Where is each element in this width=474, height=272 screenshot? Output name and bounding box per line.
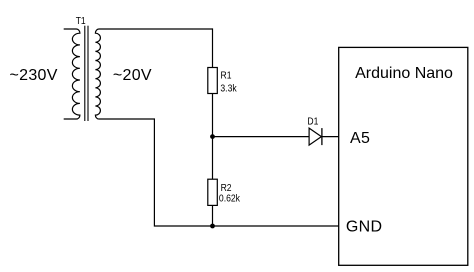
diode D1 triangle [309, 128, 321, 145]
resistor R1 [208, 68, 218, 94]
svg-text:T1: T1 [76, 15, 86, 27]
svg-text:Arduino Nano: Arduino Nano [355, 65, 453, 82]
secondary winding (right coil) + top lead wire to R1 [95, 29, 212, 119]
node junction dot [210, 134, 215, 139]
wire: R2 to bottom rail [212, 205, 214, 226]
core line 2 [87, 26, 89, 121]
svg-text:3.3k: 3.3k [220, 82, 237, 94]
wire: top corner down to R1 [212, 28, 214, 67]
wire: node to diode anode [213, 136, 310, 138]
svg-text:D1: D1 [307, 116, 318, 128]
resistor R2 [208, 179, 218, 205]
wire: diode to Arduino A5 [322, 136, 339, 138]
wire: R1 to node [212, 94, 214, 137]
svg-text:R1: R1 [221, 70, 232, 82]
diode D1 cathode bar [321, 128, 323, 145]
svg-text:~20V: ~20V [113, 67, 152, 84]
svg-text:GND: GND [346, 219, 382, 236]
wire: node to R2 [212, 137, 214, 180]
svg-text:0.62k: 0.62k [219, 193, 241, 205]
core line 1 [84, 26, 86, 121]
primary winding (left coil) [64, 29, 80, 119]
transformer T1 [64, 26, 213, 121]
Arduino Nano box [339, 47, 468, 265]
svg-text:A5: A5 [350, 130, 370, 147]
wire: secondary bottom lead, down and along bottom rail to Arduino GND [99, 119, 339, 226]
bottom junction dot [210, 224, 215, 229]
svg-text:~230V: ~230V [10, 67, 58, 84]
